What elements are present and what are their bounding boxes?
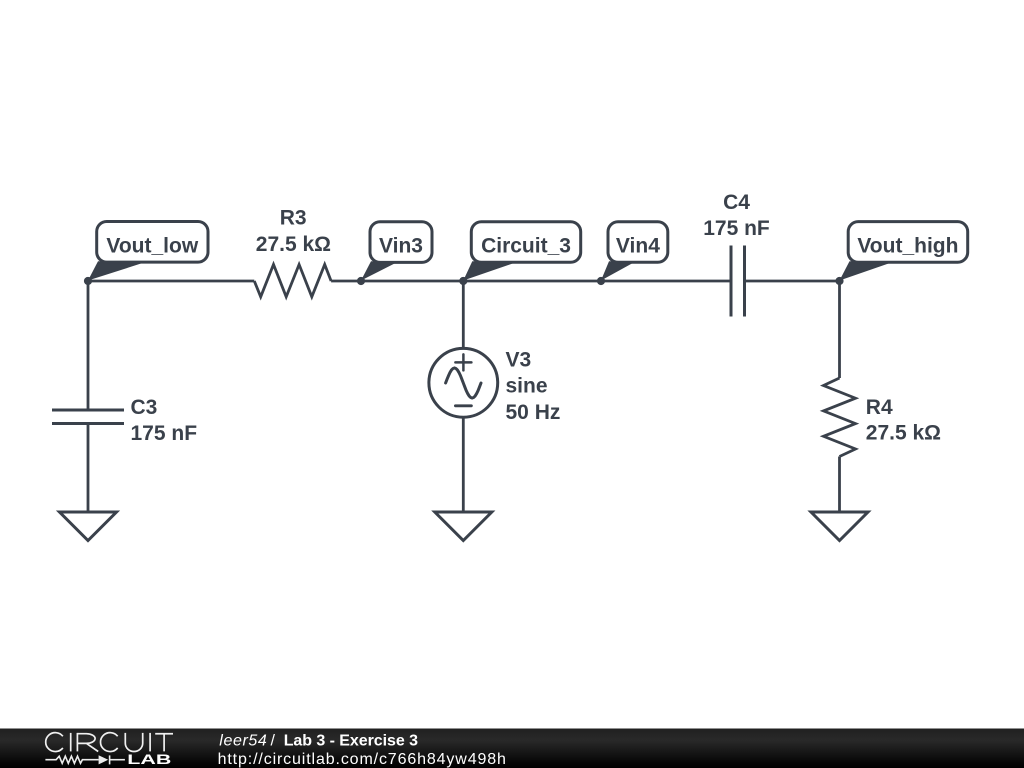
svg-text:175 nF: 175 nF — [703, 217, 770, 240]
svg-text:sine: sine — [506, 374, 548, 397]
svg-text:Vin4: Vin4 — [616, 235, 660, 258]
svg-text:Lab 3 - Exercise 3: Lab 3 - Exercise 3 — [284, 733, 418, 750]
svg-text:Vout_low: Vout_low — [106, 235, 198, 258]
svg-text:Vin3: Vin3 — [379, 235, 423, 258]
svg-text:Vout_high: Vout_high — [857, 235, 958, 258]
svg-text:http://circuitlab.com/c766h84y: http://circuitlab.com/c766h84yw498h — [218, 751, 506, 768]
svg-text:LAB: LAB — [127, 752, 171, 767]
svg-text:R4: R4 — [866, 396, 893, 419]
svg-text:C4: C4 — [723, 191, 750, 214]
svg-text:27.5 kΩ: 27.5 kΩ — [866, 422, 941, 445]
svg-text:27.5 kΩ: 27.5 kΩ — [256, 233, 331, 256]
svg-text:R3: R3 — [280, 207, 307, 230]
svg-text:/: / — [271, 733, 276, 750]
svg-text:175 nF: 175 nF — [131, 422, 198, 445]
svg-text:Circuit_3: Circuit_3 — [481, 235, 571, 258]
svg-text:50 Hz: 50 Hz — [506, 401, 561, 424]
svg-text:V3: V3 — [506, 348, 532, 371]
svg-text:leer54: leer54 — [219, 733, 267, 750]
svg-text:C3: C3 — [131, 396, 158, 419]
